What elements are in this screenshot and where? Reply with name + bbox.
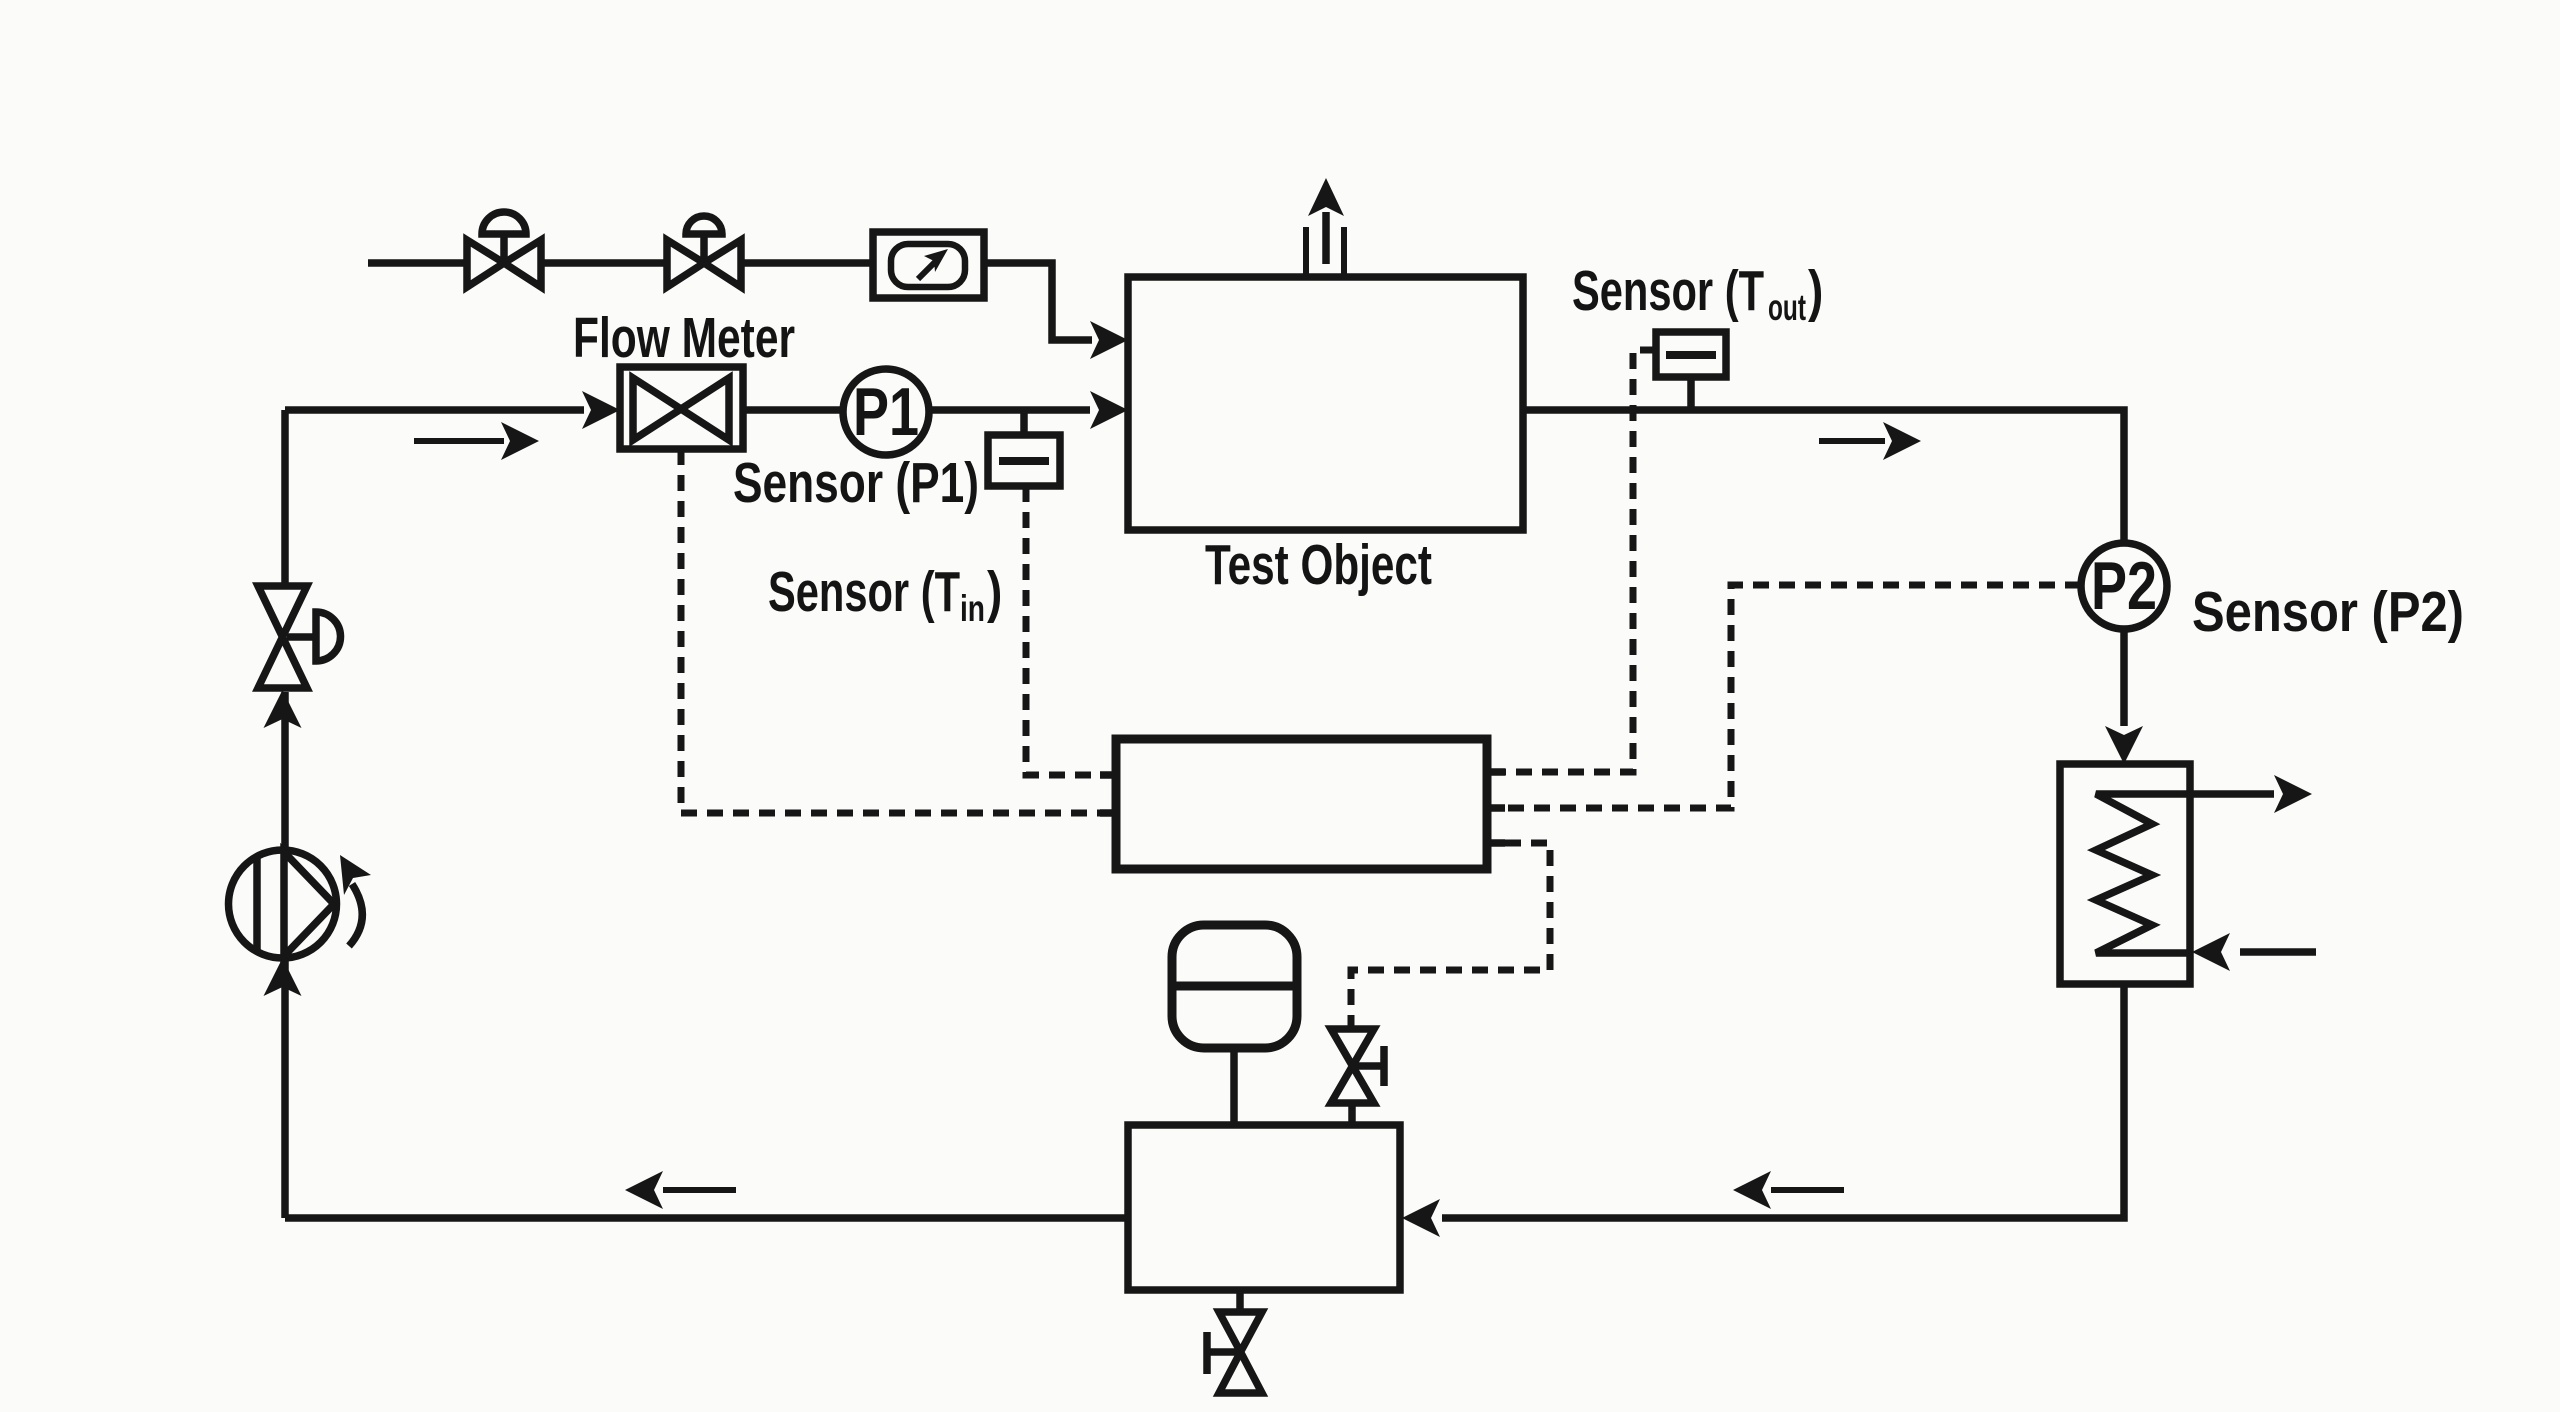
flow indicator needle: [918, 261, 936, 279]
dashed signal controller to sensor P2: [1505, 585, 2081, 808]
arrowhead riser up to control valve: [264, 690, 302, 728]
controller left pins: [1100, 775, 1116, 813]
drain valve stub: [1236, 1290, 1244, 1312]
flow meter bowtie: [633, 378, 729, 440]
bottom mixing tank box: [1128, 1125, 1400, 1290]
valve HV2 diaphragm actuator: [686, 216, 722, 266]
heat exchanger coolant inlet stub: [2240, 948, 2316, 956]
arrowhead heat exchanger outlet: [2274, 775, 2312, 813]
sensor Tout box: [1656, 332, 1726, 377]
wire main supply line from left riser to flow meter: [285, 406, 584, 414]
control valve CV body: [258, 586, 307, 688]
wire main line flow meter to test object: [743, 406, 1090, 414]
svg-text:Test Object: Test Object: [1205, 534, 1432, 596]
vent valve stub to tank box: [1348, 1103, 1356, 1125]
pump circle: [229, 850, 337, 958]
svg-text:P2: P2: [2091, 548, 2157, 623]
pump rotation arrowhead: [340, 855, 371, 895]
svg-text:out: out: [1768, 288, 1806, 328]
valve HV1 diaphragm actuator: [482, 212, 526, 266]
drain valve handle: [1207, 1332, 1240, 1374]
svg-text:P1: P1: [853, 374, 919, 449]
sensor P1 instrument circle: [843, 369, 929, 455]
wire left riser control valve to main line: [281, 410, 289, 586]
arrowhead heat exchanger coolant inlet: [2192, 933, 2230, 971]
flow indicator stadium: [891, 244, 965, 287]
wire left riser pump to control valve: [281, 692, 289, 850]
label Sensor (Tin): [768, 561, 1002, 630]
indicator needle arrowhead: [924, 249, 948, 272]
sensor Tin element mark: [999, 457, 1049, 465]
wire left riser lower segment: [281, 958, 289, 1218]
vent valve handle: [1352, 1046, 1384, 1086]
flow meter box: [620, 367, 743, 449]
expansion tank stem: [1230, 1048, 1238, 1125]
dashed signal sensor Tout to controller: [1505, 350, 1656, 772]
svg-text:Flow Meter: Flow Meter: [573, 307, 795, 369]
svg-text:): ): [987, 561, 1002, 623]
controller box: [1116, 739, 1487, 869]
svg-text:Sensor (P1): Sensor (P1): [733, 452, 979, 514]
wire heat exchanger down to bottom return line: [1442, 984, 2124, 1218]
heat exchanger box: [2060, 764, 2190, 984]
expansion tank divider: [1172, 982, 1297, 991]
vent pipe lines on test object: [1306, 227, 1344, 277]
vent arrowhead: [1308, 178, 1344, 216]
flow direction arrow bottom left: [625, 1171, 736, 1209]
arrowhead into heat exchanger: [2105, 726, 2143, 764]
arrowhead top branch into test object: [1090, 321, 1128, 359]
controller right pins: [1487, 772, 1505, 843]
wire top supply line between valves: [541, 259, 667, 267]
drain valve body: [1219, 1312, 1262, 1393]
wire top supply line indicator to corner, down and into test object: [983, 263, 1092, 340]
expansion tank: [1172, 925, 1297, 1048]
valve HV2 body: [667, 240, 741, 287]
svg-text:): ): [1808, 260, 1823, 322]
flow direction arrow bottom right: [1733, 1171, 1844, 1209]
sensor Tin stub: [1020, 410, 1028, 435]
dashed signal sensor Tin to controller: [1026, 486, 1102, 775]
arrowhead riser up to pump: [264, 958, 302, 996]
sensor P2 instrument circle: [2081, 543, 2167, 629]
arrowhead bottom line into tank box: [1402, 1199, 1440, 1237]
pump internal chord: [253, 857, 261, 951]
valve HV1 body: [467, 240, 541, 287]
control valve actuator: [287, 612, 341, 661]
flow indicator box: [873, 232, 984, 298]
dashed signal flow meter to controller: [681, 449, 1102, 813]
wire test object outlet to right riser and down to P2: [1523, 410, 2124, 726]
wire bottom return line to left riser: [285, 1214, 1128, 1222]
heat exchanger coil with outlet stub: [2096, 794, 2274, 953]
pump internal triangle: [284, 852, 334, 956]
wire top supply line valve2 to indicator: [741, 259, 873, 267]
sensor Tout element mark: [1666, 351, 1716, 359]
wire top supply line left segment: [368, 259, 467, 267]
svg-text:Sensor (T: Sensor (T: [1572, 260, 1764, 322]
svg-text:in: in: [960, 589, 985, 629]
arrowhead main line into flow meter: [582, 391, 620, 429]
pump rotation arc: [349, 884, 362, 946]
flow direction arrow after test object: [1819, 422, 1921, 460]
test object box: [1128, 277, 1523, 530]
dashed signal controller to vent valve: [1351, 843, 1550, 1029]
vent arrow shaft: [1322, 212, 1330, 264]
arrowhead main line into test object: [1090, 391, 1128, 429]
flow direction arrow lower left: [414, 422, 539, 460]
sensor Tin box: [988, 435, 1060, 486]
svg-text:Sensor (P2): Sensor (P2): [2192, 581, 2464, 643]
label Sensor (Tout): [1572, 260, 1823, 329]
vent valve body: [1331, 1029, 1374, 1103]
sensor Tout stub: [1687, 377, 1695, 410]
svg-text:Sensor (T: Sensor (T: [768, 561, 960, 623]
